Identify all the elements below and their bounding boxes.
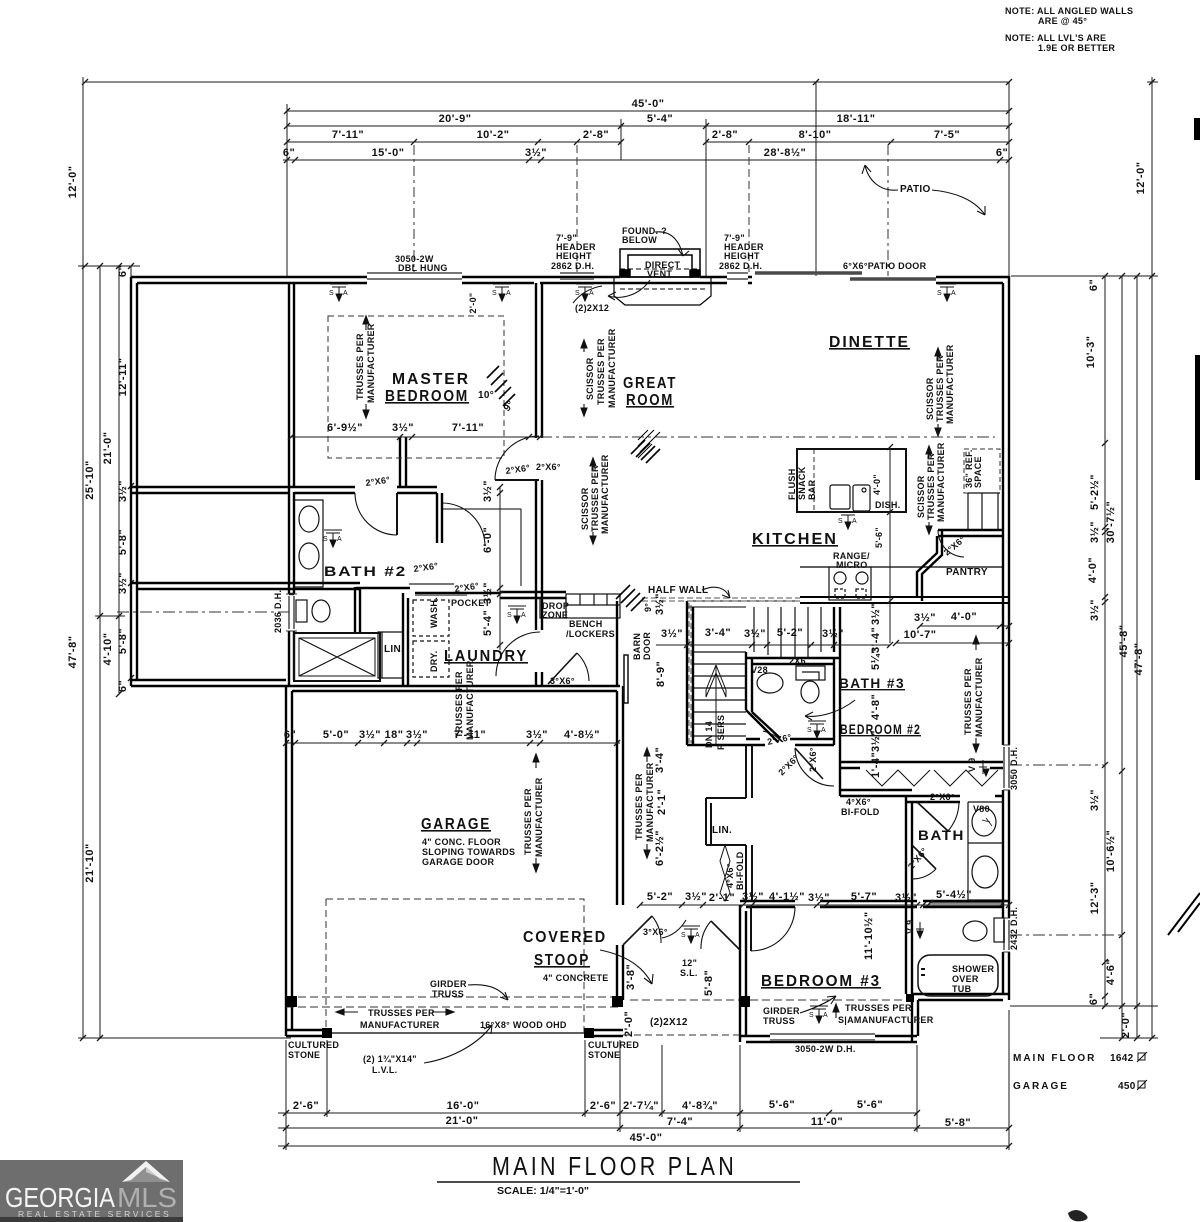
- svg-text:21'-0": 21'-0": [446, 1115, 479, 1127]
- svg-text:4°X6°: 4°X6°: [725, 863, 735, 888]
- svg-text:TRUSSES PER: TRUSSES PER: [845, 1003, 912, 1013]
- svg-text:3½": 3½": [654, 593, 666, 615]
- svg-text:(2) 1¾"X14": (2) 1¾"X14": [363, 1054, 417, 1064]
- svg-text:2'-1": 2'-1": [656, 789, 668, 815]
- laundry dryer dashed: [413, 641, 449, 677]
- trusses arrows garage horizontal: [336, 1009, 454, 1015]
- girder truss leader garage: [468, 985, 508, 1000]
- bedroom3 dim line: [640, 904, 1009, 906]
- direct vent leader: [608, 280, 650, 300]
- svg-text:GIRDER: GIRDER: [763, 1006, 800, 1016]
- svg-text:DINETTE: DINETTE: [829, 334, 910, 351]
- svg-text:6": 6": [283, 147, 295, 159]
- svg-text:4'-6": 4'-6": [1105, 959, 1117, 985]
- bath3 shelf: [796, 666, 825, 680]
- hatch great room left: [631, 440, 660, 463]
- svg-text:10'-7": 10'-7": [904, 629, 937, 641]
- hatch half wall left: [616, 585, 645, 611]
- svg-text:6'-2½": 6'-2½": [654, 830, 666, 866]
- top dim vertical at x706: [705, 119, 707, 276]
- bedroom3 left wall: [740, 905, 746, 1042]
- svg-text:2'-8": 2'-8": [712, 129, 738, 141]
- svg-text:3050 D.H.: 3050 D.H.: [1009, 747, 1019, 790]
- svg-text:GREAT: GREAT: [623, 375, 677, 392]
- svg-text:2862 D.H.: 2862 D.H.: [719, 261, 762, 271]
- great room ceiling dash-dot: [540, 436, 995, 438]
- svg-text:4'-0": 4'-0": [951, 611, 977, 623]
- svg-text:16'-0": 16'-0": [447, 1100, 480, 1112]
- right dim line 10'-3 / 12'-3: [1104, 276, 1106, 1006]
- garage right wall: [617, 686, 623, 1000]
- main left wall upper: [289, 283, 294, 686]
- svg-text:MANUFACTURER: MANUFACTURER: [366, 323, 376, 403]
- svg-text:DOOR: DOOR: [642, 632, 652, 660]
- svg-text:DISH.: DISH.: [875, 500, 901, 510]
- bath2 toilet nook wall: [355, 587, 360, 632]
- interior dim ticks: [288, 434, 543, 440]
- svg-text:L.V.L.: L.V.L.: [372, 1065, 397, 1075]
- svg-text:10'-2": 10'-2": [477, 129, 510, 141]
- svg-text:3½": 3½": [661, 628, 683, 640]
- svg-text:BEDROOM: BEDROOM: [385, 388, 469, 405]
- svg-text:S|AMANUFACTURER: S|AMANUFACTURER: [838, 1015, 934, 1025]
- svg-text:MICRO: MICRO: [836, 560, 868, 570]
- girder truss dashed bedroom3: [630, 999, 912, 1001]
- master truss dashed rect: [328, 316, 504, 458]
- patio right edge: [1008, 82, 1010, 276]
- svg-text:SNACK: SNACK: [797, 466, 807, 500]
- svg-text:18": 18": [385, 729, 404, 741]
- bath1 inner door leaf: [912, 845, 936, 869]
- svg-text:6": 6": [117, 265, 129, 277]
- left dim line 21'-0 / 4'-10: [118, 266, 120, 694]
- svg-text:S: S: [329, 290, 334, 297]
- svg-text:2°X6°: 2°X6°: [413, 561, 439, 574]
- bath2 door arc: [355, 493, 397, 535]
- svg-text:10'-3": 10'-3": [1085, 336, 1097, 369]
- svg-text:FLUSH: FLUSH: [787, 469, 797, 501]
- top dim line 15'-0 / 28'-8.5: [283, 159, 1009, 161]
- svg-text:2°X6°: 2°X6°: [505, 463, 531, 476]
- svg-text:4" CONC. FLOOR: 4" CONC. FLOOR: [422, 837, 501, 847]
- patio leader left: [862, 165, 898, 190]
- svg-text:MANUFACTURER: MANUFACTURER: [645, 762, 655, 842]
- svg-text:TRUSSES PER: TRUSSES PER: [935, 355, 945, 422]
- svg-text:25'-10": 25'-10": [84, 460, 96, 499]
- garage dim line: [286, 742, 620, 744]
- svg-text:S.L.: S.L.: [680, 968, 698, 978]
- svg-text:STONE: STONE: [588, 1050, 620, 1060]
- svg-text:SHOWER: SHOWER: [952, 964, 995, 974]
- svg-text:2°X6°: 2°X6°: [776, 753, 801, 778]
- bottom dim line row1: [278, 1112, 917, 1114]
- svg-text:V28: V28: [751, 665, 768, 675]
- sq ft symbols: [1137, 1052, 1147, 1090]
- svg-text:MANUFACTURER: MANUFACTURER: [534, 777, 544, 857]
- svg-text:3'-4": 3'-4": [654, 747, 666, 773]
- svg-text:3°X6°: 3°X6°: [643, 927, 668, 937]
- svg-text:DN 14: DN 14: [704, 721, 714, 748]
- svg-text:21'-10": 21'-10": [84, 843, 96, 882]
- svg-text:5'-2½": 5'-2½": [1089, 474, 1101, 510]
- right dim line 45'-8 / 2'-0: [1136, 276, 1138, 1038]
- bedroom3 bottom wall: [740, 1036, 917, 1042]
- svg-text:V80: V80: [973, 804, 990, 814]
- laundry hall wall y595 left part: [289, 593, 294, 595]
- bottom dim extension x1009: [1008, 1010, 1010, 1150]
- svg-text:(2)2X12: (2)2X12: [650, 1017, 688, 1028]
- top exterior wall inner line: [137, 282, 1003, 284]
- svg-text:BI-FOLD: BI-FOLD: [841, 807, 880, 817]
- hall lin closet: [706, 745, 752, 901]
- bedroom2 door leaf: [795, 748, 823, 779]
- svg-text:OVER: OVER: [952, 974, 979, 984]
- svg-text:4'-0": 4'-0": [872, 474, 882, 495]
- window 2862 centerline dashed left: [576, 145, 578, 272]
- top dim line 20'-9 / 5'-4 / 18'-11: [287, 125, 1009, 127]
- svg-text:MANUFACTURER: MANUFACTURER: [600, 454, 610, 534]
- great room truss direction arrows: [638, 430, 660, 458]
- covered stoop leader: [600, 950, 653, 984]
- right dim extension top wall: [1011, 275, 1158, 277]
- svg-text:BENCH: BENCH: [569, 619, 603, 629]
- svg-text:3½": 3½": [1089, 599, 1101, 621]
- laundry pocket door slab: [415, 594, 467, 596]
- svg-text:5'-8": 5'-8": [117, 628, 129, 654]
- bottom right speckle: [1068, 1210, 1088, 1221]
- hall bifold door: [720, 845, 730, 901]
- svg-text:2'-0": 2'-0": [1120, 1012, 1132, 1038]
- bath3 toilet: [801, 681, 819, 703]
- front entry door arc: [701, 921, 711, 949]
- svg-text:12'-0": 12'-0": [67, 166, 79, 199]
- svg-text:3½": 3½": [482, 582, 494, 604]
- left dim extension at wall top: [78, 265, 140, 267]
- stairs upper risers: [754, 607, 821, 658]
- svg-text:3½": 3½": [1089, 789, 1101, 811]
- right dim line 30'-7.5 / 10'-6.5 / 4'-6: [1121, 276, 1123, 1038]
- master south wall: [131, 487, 437, 493]
- svg-text:SPACE: SPACE: [973, 456, 983, 488]
- girder truss black squares: [286, 118, 1200, 1038]
- svg-text:3½": 3½": [526, 729, 548, 741]
- bath3 vanity oval: [757, 673, 783, 693]
- svg-text:DRY.: DRY.: [429, 651, 439, 672]
- bath1 door top arc: [948, 803, 959, 831]
- bath1 toilet: [994, 918, 1004, 942]
- svg-text:2°X6°: 2°X6°: [365, 475, 391, 488]
- garage overhead door line: [327, 1032, 585, 1034]
- svg-text:CULTURED: CULTURED: [288, 1040, 339, 1050]
- bath2 shower: [294, 633, 380, 681]
- svg-text:5'-8": 5'-8": [945, 1117, 971, 1129]
- bath2 toilet bowl: [312, 600, 330, 622]
- bedroom2 bifold zigzag: [866, 770, 998, 786]
- svg-text:3½": 3½": [1089, 521, 1101, 543]
- svg-text:TRUSS: TRUSS: [432, 989, 464, 999]
- svg-text:47'-8": 47'-8": [67, 636, 79, 669]
- top dim line 7'-11 / 10'-2 / 2'-8 rows: [287, 141, 621, 143]
- svg-text:45'-0": 45'-0": [632, 98, 665, 110]
- svg-text:4°X6°: 4°X6°: [846, 797, 871, 807]
- laundry door arc: [496, 632, 540, 676]
- left dim line 25'-10 / 21'-10: [99, 266, 101, 1039]
- girder truss dashed lines garage: [286, 997, 620, 1007]
- svg-text:12'-0": 12'-0": [1135, 162, 1147, 195]
- svg-text:4'-8½": 4'-8½": [564, 729, 600, 741]
- svg-text:45'-8": 45'-8": [1118, 625, 1130, 658]
- svg-text:3½": 3½": [392, 422, 414, 434]
- svg-text:MASTER: MASTER: [392, 371, 470, 388]
- bedroom2 west wall: [834, 607, 840, 652]
- bedroom2 closet walls: [840, 745, 1003, 796]
- kitchen dim lines: [890, 447, 1009, 643]
- garage front wall piers: [286, 1030, 623, 1036]
- svg-text:TRUSSES PER: TRUSSES PER: [454, 671, 464, 738]
- svg-text:TRUSSES PER: TRUSSES PER: [590, 465, 600, 532]
- svg-text:2'-8": 2'-8": [583, 129, 609, 141]
- dimension slash ticks: [80, 79, 1155, 1149]
- svg-text:5'-7": 5'-7": [851, 891, 877, 903]
- kitchen sink: [830, 485, 850, 509]
- svg-text:4'-8": 4'-8": [870, 694, 882, 720]
- wall x912 bath to bedroom3: [912, 994, 918, 1042]
- svg-text:47'-8": 47'-8": [1133, 643, 1145, 676]
- bath2 sink oval 2: [299, 543, 319, 569]
- bath1 west wall: [906, 796, 912, 994]
- bath1 vanity: [968, 802, 1003, 843]
- svg-text:5'-6": 5'-6": [769, 1099, 795, 1111]
- svg-text:WASH.: WASH.: [429, 597, 439, 628]
- closet door arc: [442, 503, 485, 546]
- svg-text:2°X6°: 2°X6°: [942, 534, 967, 558]
- svg-text:STONE: STONE: [288, 1050, 320, 1060]
- svg-text:REAL ESTATE SERVICES: REAL ESTATE SERVICES: [18, 1209, 171, 1219]
- bottom dim extension x286: [285, 1040, 287, 1150]
- svg-text:TRUSSES PER: TRUSSES PER: [368, 1008, 435, 1018]
- svg-text:MANUFACTURER: MANUFACTURER: [936, 442, 946, 522]
- svg-text:5'-0": 5'-0": [323, 729, 349, 741]
- svg-text:TRUSSES PER: TRUSSES PER: [523, 788, 533, 855]
- svg-text:MANUFACTURER: MANUFACTURER: [945, 344, 955, 424]
- svg-text:2'-0": 2'-0": [623, 1011, 635, 1037]
- svg-text:GARAGE DOOR: GARAGE DOOR: [422, 857, 495, 867]
- window 2862 centerline dashed right: [748, 145, 750, 272]
- svg-text:2432 D.H.: 2432 D.H.: [1009, 907, 1019, 950]
- svg-text:TRUSSES PER: TRUSSES PER: [596, 338, 606, 405]
- bedroom3 top wall: [740, 901, 1009, 907]
- truss arrow garage rotated: [533, 754, 539, 872]
- svg-text:V 9: V 9: [905, 920, 915, 934]
- bath1 door top leaf: [917, 802, 948, 831]
- mudroom rear door leaf: [548, 653, 577, 684]
- svg-text:1'-4": 1'-4": [870, 752, 882, 778]
- bath3 angled door wall: [746, 710, 780, 742]
- svg-text:5'-4½": 5'-4½": [936, 889, 972, 901]
- top dim vertical at x287: [286, 104, 288, 276]
- svg-text:SLOPING TOWARDS: SLOPING TOWARDS: [422, 847, 515, 857]
- svg-text:450: 450: [1118, 1081, 1136, 1092]
- svg-text:2'-6": 2'-6": [293, 1100, 319, 1112]
- svg-text:6": 6": [1088, 279, 1100, 291]
- drop zone cubby: [540, 598, 566, 618]
- bath2 sink oval 1: [299, 506, 319, 532]
- svg-text:DBL HUNG: DBL HUNG: [398, 263, 448, 273]
- svg-text:4'-1½": 4'-1½": [769, 891, 805, 903]
- right dim extension top patio: [1147, 81, 1158, 83]
- svg-text:NOTE: ALL LVL'S ARE: NOTE: ALL LVL'S ARE: [1005, 33, 1106, 43]
- master closet stub wall: [400, 437, 406, 487]
- svg-text:6'-0": 6'-0": [482, 527, 494, 553]
- bath2 mid wall: [131, 583, 360, 589]
- svg-text:2'-7¼": 2'-7¼": [623, 1100, 659, 1112]
- right outer dim line 12'-0 patio: [1151, 77, 1153, 1038]
- svg-text:6": 6": [117, 680, 129, 692]
- half wall leader: [702, 587, 730, 598]
- svg-text:MANUFACTURER: MANUFACTURER: [607, 328, 617, 408]
- svg-text:5'-6": 5'-6": [857, 1099, 883, 1111]
- garage top wall / house bottom wall: [131, 680, 620, 691]
- svg-text:BAR: BAR: [807, 479, 817, 500]
- svg-text:5'-8": 5'-8": [117, 529, 129, 555]
- bottom dim line row2 21'-0 / 7'-4 / 11'-0 / 5'-8: [278, 1127, 1009, 1129]
- svg-text:ZONE: ZONE: [542, 610, 568, 620]
- stairs arrow up: [706, 665, 726, 745]
- svg-text:12'-3": 12'-3": [1089, 882, 1101, 915]
- left wing exterior wall: [131, 277, 137, 686]
- svg-text:BATH #3: BATH #3: [839, 675, 905, 691]
- svg-text:TRUSSES PER: TRUSSES PER: [355, 333, 365, 400]
- svg-text:TUB: TUB: [952, 984, 972, 994]
- left wing dash-dot centerline: [117, 611, 289, 613]
- truss arrow bedroom2: [973, 636, 979, 752]
- svg-text:2°X6°: 2°X6°: [808, 747, 818, 772]
- patio door panels: [755, 273, 936, 279]
- svg-text:3½": 3½": [870, 730, 882, 752]
- bath3 door leaf and arc: [752, 712, 783, 742]
- svg-text:12": 12": [682, 958, 697, 968]
- svg-text:1642: 1642: [1110, 1053, 1134, 1064]
- left dim extension bottom: [78, 1037, 291, 1039]
- mudroom bench lockers: [566, 594, 620, 618]
- laundry top wall: [415, 592, 566, 598]
- svg-text:5'-4": 5'-4": [647, 113, 673, 125]
- svg-text:8'-10": 8'-10": [799, 129, 832, 141]
- left dim line room segments: [130, 266, 132, 686]
- kitchen south counter line: [800, 566, 1003, 568]
- bottom dim extension x917: [916, 1045, 918, 1132]
- top exterior wall outer line: [131, 276, 1009, 278]
- right dim extension y1038: [1100, 1037, 1158, 1039]
- truss arrow master: [363, 316, 369, 418]
- lvl leader: [424, 1025, 492, 1063]
- window 3050 right bedroom2: [1003, 745, 1010, 790]
- svg-text:PANTRY: PANTRY: [946, 567, 988, 578]
- svg-text:R SERS: R SERS: [716, 715, 726, 750]
- svg-text:5¼": 5¼": [870, 648, 882, 670]
- svg-text:MANUFACTURER: MANUFACTURER: [974, 657, 984, 737]
- right exterior wall: [1003, 276, 1009, 1000]
- svg-text:COVERED: COVERED: [523, 929, 607, 946]
- fireplace direct vent box: [614, 249, 711, 305]
- svg-text:BATH: BATH: [918, 827, 965, 843]
- bath1 bottom wall: [912, 994, 1009, 1000]
- mudroom rear door arc: [577, 653, 589, 681]
- bath1 tub: [918, 955, 998, 996]
- svg-text:ROOM: ROOM: [626, 392, 674, 409]
- covered stoop dashed apron: [326, 899, 584, 1035]
- svg-text:3½": 3½": [744, 628, 766, 640]
- bedroom2 door arc: [795, 748, 834, 786]
- closet shelf lines: [442, 509, 521, 586]
- svg-text:11'-10½": 11'-10½": [863, 911, 875, 960]
- bath1 north wall: [906, 796, 1003, 802]
- bath2 toilet tank: [296, 600, 307, 622]
- svg-text:45'-0": 45'-0": [630, 1132, 663, 1144]
- svg-text:3½": 3½": [914, 612, 936, 624]
- svg-text:2°X6°: 2°X6°: [930, 792, 955, 802]
- bath3 door leader: [805, 700, 855, 720]
- svg-text:2'-6": 2'-6": [590, 1100, 616, 1112]
- svg-text:10°: 10°: [478, 390, 494, 401]
- svg-text:LAUNDRY: LAUNDRY: [444, 648, 528, 665]
- scissor truss arrows: [590, 458, 596, 544]
- svg-text:12'-11": 12'-11": [117, 358, 129, 397]
- svg-text:2036 D.H.: 2036 D.H.: [273, 590, 283, 633]
- svg-text:3'-4": 3'-4": [705, 627, 731, 639]
- fridge lines: [968, 493, 1000, 530]
- master bedroom door leaf: [495, 479, 539, 481]
- svg-text:(2)2X12: (2)2X12: [575, 303, 609, 313]
- svg-text:BEDROOM #3: BEDROOM #3: [761, 973, 881, 990]
- svg-text:20'-9": 20'-9": [439, 113, 472, 125]
- svg-text:TRUSS: TRUSS: [763, 1016, 795, 1026]
- svg-text:SCISSOR: SCISSOR: [580, 487, 590, 530]
- svg-text:BATH #2: BATH #2: [324, 563, 407, 579]
- right edge sheet marks: [1194, 118, 1200, 140]
- svg-text:GARAGE: GARAGE: [421, 816, 491, 833]
- svg-text:GARAGE: GARAGE: [1013, 1081, 1069, 1092]
- bottom dim extension x740: [739, 1045, 741, 1132]
- svg-text:6°X6°PATIO DOOR: 6°X6°PATIO DOOR: [843, 261, 927, 271]
- svg-text:15'-0": 15'-0": [372, 147, 405, 159]
- laundry vertical dim line: [499, 487, 501, 650]
- svg-text:9°: 9°: [643, 603, 653, 612]
- (2)2x12 leader top: [573, 286, 602, 303]
- svg-text:3½": 3½": [895, 892, 917, 904]
- bath2 bottom opening header: [356, 587, 410, 589]
- svg-text:V 9: V 9: [967, 758, 977, 772]
- svg-text:5'-2": 5'-2": [777, 627, 803, 639]
- svg-text:16°X8° WOOD OHD: 16°X8° WOOD OHD: [480, 1020, 567, 1030]
- roof icon: [122, 1161, 170, 1182]
- svg-text:TRUSSES PER: TRUSSES PER: [963, 668, 973, 735]
- svg-text:/LOCKERS: /LOCKERS: [566, 629, 615, 639]
- svg-text:7'-11": 7'-11": [332, 129, 364, 141]
- svg-text:TRUSSES PER: TRUSSES PER: [634, 773, 644, 840]
- front entry door leaf: [711, 921, 740, 950]
- svg-text:PATIO: PATIO: [900, 184, 931, 195]
- svg-text:5'-2": 5'-2": [647, 891, 673, 903]
- svg-text:2X6: 2X6: [789, 656, 806, 666]
- girder truss leader bedroom3: [800, 996, 836, 1013]
- bottom dim extension x662: [661, 1045, 663, 1117]
- svg-text:3½": 3½": [742, 891, 764, 903]
- bottom dim line row3 45'-0: [278, 1145, 1009, 1147]
- garage left wall: [286, 686, 292, 1036]
- svg-text:6": 6": [1088, 993, 1100, 1005]
- svg-text:HEIGHT: HEIGHT: [556, 251, 592, 261]
